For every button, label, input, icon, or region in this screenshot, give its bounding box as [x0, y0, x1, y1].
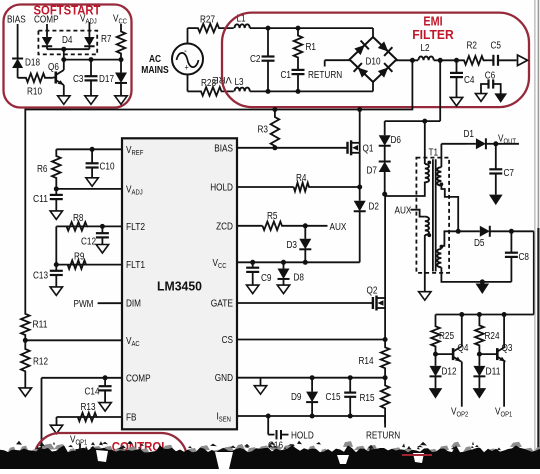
diode D1	[466, 143, 476, 145]
ground aux	[419, 292, 431, 301]
wire VCC pin	[237, 261, 360, 263]
node GND at D9	[310, 375, 315, 380]
svg-text:D6: D6	[391, 135, 402, 146]
svg-text:C12: C12	[81, 237, 96, 248]
diode D12	[435, 354, 437, 366]
wire D4 link	[47, 48, 89, 50]
wire ZCD pin	[237, 225, 263, 227]
bridge diode bottom-left	[354, 63, 370, 79]
svg-text:COMP: COMP	[126, 373, 151, 384]
node Q1 drain bus	[357, 107, 362, 112]
wire BIAS down	[17, 24, 19, 57]
wire ISEN pin	[237, 415, 385, 417]
wire D4 to rail	[63, 49, 65, 66]
node FLT2 at C12	[100, 224, 105, 229]
capacitor C1	[297, 62, 299, 70]
svg-text:R5: R5	[267, 211, 278, 222]
wire to T1 primary top	[424, 121, 426, 164]
node R24 bottom	[477, 352, 482, 357]
svg-text:L3: L3	[235, 77, 244, 88]
capacitor C10	[91, 149, 93, 163]
page edge line outer	[537, 0, 539, 228]
node VCC at C9	[250, 260, 255, 265]
node C2 bottom	[266, 89, 271, 94]
node CS junction	[383, 337, 388, 342]
svg-text:LM3450: LM3450	[157, 279, 202, 294]
node ISEN at D9	[310, 414, 315, 419]
svg-text:R14: R14	[359, 356, 374, 367]
node ZCD at D3	[303, 223, 308, 228]
wire VAC pin	[25, 339, 122, 341]
node D4 junction	[61, 47, 66, 52]
ground C11	[50, 211, 62, 220]
wire Q2 drain	[384, 194, 386, 298]
resistor R7	[117, 24, 126, 60]
diode D2	[359, 187, 361, 201]
ground D17	[115, 96, 127, 105]
node ISEN at C15	[348, 414, 353, 419]
diode D4 left half	[46, 34, 48, 37]
wire GATE pin	[237, 302, 373, 304]
svg-text:PWM: PWM	[74, 299, 94, 310]
wire Q6 emitter down	[63, 85, 65, 96]
svg-text:C13: C13	[33, 271, 48, 282]
svg-text:FB: FB	[126, 413, 137, 424]
inductor L1	[235, 24, 250, 28]
resistor R25	[431, 315, 440, 355]
node VREF at C10	[90, 147, 95, 152]
svg-text:BIAS: BIAS	[7, 15, 26, 26]
ground C6 left	[475, 94, 486, 102]
node rail at Q3	[502, 312, 507, 317]
svg-text:MAINS: MAINS	[141, 65, 169, 76]
node C8 bottom	[480, 279, 485, 284]
wire Q2 source	[384, 308, 386, 340]
svg-text:C11: C11	[33, 194, 48, 205]
resistor R24	[475, 315, 484, 355]
node rail at D17	[119, 57, 124, 62]
wire ac top to bridge	[250, 27, 373, 29]
node C1 bottom	[296, 89, 301, 94]
svg-text:D5: D5	[474, 238, 485, 249]
diode D18	[17, 57, 19, 59]
node R3 bottom	[272, 145, 277, 150]
resistor R14	[381, 340, 390, 378]
bridge rectifier D10 outline	[350, 37, 397, 82]
svg-text:C15: C15	[326, 392, 341, 403]
wire ZCD to AUX	[305, 225, 327, 227]
wire HOLD pin	[237, 186, 294, 188]
ground GND pin	[260, 378, 262, 386]
wire D5 out to rail	[511, 230, 533, 232]
node VADJ at R6	[54, 186, 59, 191]
node D5 out at C8	[509, 229, 514, 234]
svg-text:Q1: Q1	[363, 144, 374, 155]
wire Q3 emitter down	[504, 361, 505, 363]
svg-text:R15: R15	[360, 393, 375, 404]
softstart region box	[4, 5, 132, 108]
t1 secondary bottom winding	[437, 249, 441, 267]
inductor L2	[418, 56, 433, 60]
svg-text:R9: R9	[74, 252, 85, 263]
svg-text:T1: T1	[429, 148, 439, 159]
capacitor C7	[495, 144, 497, 170]
transistor Q4	[452, 348, 455, 360]
svg-text:D7: D7	[367, 166, 378, 177]
wire aux in	[411, 210, 425, 217]
wire COMP down	[46, 24, 48, 34]
diode D9	[311, 378, 313, 392]
capacitor C14	[104, 378, 106, 386]
wire L2 to R2	[434, 59, 464, 61]
svg-text:R3: R3	[258, 125, 269, 136]
resistor R27	[196, 24, 234, 33]
emi filter region box	[222, 13, 529, 108]
svg-text:D2: D2	[369, 202, 380, 213]
wire flt2-flt1 link	[55, 226, 57, 264]
wire center tap link	[441, 231, 458, 249]
ground sec bottom (solid)	[476, 284, 490, 295]
t1 core	[432, 159, 434, 271]
wire secondary top out	[440, 144, 442, 167]
node ISEN at C16	[266, 414, 271, 419]
svg-text:AC: AC	[149, 54, 161, 65]
resistor R6	[52, 149, 61, 189]
wire VADJ pin	[56, 188, 122, 190]
capacitor C2	[267, 28, 269, 56]
svg-text:C1: C1	[281, 70, 292, 81]
torn edge white notch 4	[337, 455, 349, 464]
svg-text:C10: C10	[100, 162, 115, 173]
node COMP at C14	[103, 375, 108, 380]
wire VADJ down	[88, 22, 90, 34]
diode D17	[120, 60, 122, 73]
svg-text:FLT1: FLT1	[126, 260, 145, 271]
ground C7 (solid)	[489, 195, 503, 206]
wire Q4 emitter down	[460, 361, 463, 363]
wire Q1 drain	[359, 110, 361, 143]
svg-text:ZCD: ZCD	[216, 221, 233, 232]
wire FLT1 pin	[86, 264, 122, 266]
node softstart rail left	[61, 57, 66, 62]
node Q1 source junction	[357, 185, 362, 190]
resistor R12	[21, 340, 30, 388]
svg-text:FILTER: FILTER	[412, 28, 454, 42]
svg-text:Q3: Q3	[502, 343, 513, 354]
wire VREF pin	[56, 148, 122, 150]
torn edge black layer	[0, 445, 540, 469]
wire sec top bottom jog	[441, 186, 458, 232]
svg-text:Q6: Q6	[48, 62, 59, 73]
resistor R28	[200, 87, 234, 96]
wire softstart rail	[64, 59, 121, 61]
capacitor C6	[487, 79, 489, 88]
arrow FB net down	[50, 425, 62, 434]
svg-text:HOLD: HOLD	[291, 431, 314, 442]
svg-text:EMI: EMI	[423, 14, 442, 29]
diode D3	[304, 226, 306, 239]
ground Q6	[58, 96, 70, 105]
transformer T1 dashed box	[416, 158, 449, 273]
resistor R10	[18, 74, 53, 83]
wire VOUT stub	[496, 143, 519, 145]
transistor Q6	[54, 72, 57, 84]
capacitor C3	[90, 60, 92, 77]
svg-text:R12: R12	[33, 357, 48, 368]
svg-text:D1: D1	[464, 129, 475, 140]
node rail at Q4	[459, 312, 464, 317]
svg-text:C5: C5	[491, 41, 502, 52]
svg-text:R8: R8	[73, 213, 84, 224]
svg-text:R24: R24	[485, 331, 500, 342]
resistor R15	[381, 378, 390, 424]
svg-text:D4: D4	[62, 35, 73, 46]
wire sec bottom out	[441, 267, 511, 282]
ground C10	[86, 178, 98, 187]
torn edge red fragment	[402, 454, 432, 456]
wire ac bottom	[187, 75, 189, 92]
ground D12 (solid)	[429, 388, 443, 399]
svg-text:R1: R1	[306, 42, 317, 53]
ac source symbol	[172, 44, 203, 75]
ground C12	[96, 245, 108, 254]
capacitor C4	[456, 60, 458, 73]
node R24 top	[477, 312, 482, 317]
bridge diode bottom-right	[377, 63, 393, 79]
svg-text:GATE: GATE	[211, 299, 234, 310]
diode D6	[384, 121, 386, 135]
wire RETURN drop	[384, 416, 386, 428]
control region box	[34, 433, 187, 474]
svg-text:C2: C2	[250, 54, 261, 65]
svg-text:D18: D18	[25, 58, 40, 69]
svg-text:C14: C14	[85, 387, 100, 398]
bridge diode top-left	[353, 41, 369, 57]
wire COMP pin	[42, 377, 123, 379]
resistor R1	[294, 28, 303, 62]
capacitor C8	[510, 231, 512, 252]
svg-text:L2: L2	[421, 43, 430, 54]
ground C13	[50, 287, 62, 296]
node primary feed	[422, 119, 427, 124]
svg-text:Q2: Q2	[367, 286, 378, 297]
resistor R13	[57, 413, 97, 422]
svg-text:COMP: COMP	[34, 15, 59, 26]
svg-text:FLT2: FLT2	[126, 222, 145, 233]
node FLT1 at C13	[54, 262, 59, 267]
svg-text:DIM: DIM	[126, 299, 141, 310]
svg-text:BIAS: BIAS	[214, 143, 233, 154]
svg-text:C4: C4	[464, 75, 475, 86]
svg-text:-: -	[184, 46, 187, 57]
diode D4 right half	[88, 34, 90, 37]
svg-text:R6: R6	[37, 164, 48, 175]
svg-text:HOLD: HOLD	[210, 183, 233, 194]
svg-text:R7: R7	[101, 34, 112, 45]
t1 secondary top phase dot	[440, 182, 444, 186]
wire FLT2 pin	[87, 225, 122, 227]
ground C9	[247, 285, 259, 294]
terminal VOP1	[79, 444, 81, 450]
node VCC at D3	[303, 260, 308, 265]
svg-text:R2: R2	[467, 41, 478, 52]
ic LM3450 body	[122, 138, 237, 429]
ground C14	[99, 403, 111, 412]
svg-text:D17: D17	[99, 74, 114, 85]
resistor R8	[56, 222, 87, 231]
svg-text:R10: R10	[27, 87, 42, 98]
node C2 top	[266, 26, 271, 31]
node rail at C3	[89, 57, 94, 62]
t1 secondary bottom phase dot	[440, 245, 444, 249]
t1 primary phase dot	[427, 161, 431, 165]
node VAC divider	[23, 338, 28, 343]
capacitor C12	[101, 226, 103, 233]
node VCC at D8	[281, 260, 286, 265]
wire Q1 source	[359, 153, 361, 187]
capacitor C11	[55, 189, 57, 195]
t1 secondary top winding	[437, 167, 441, 185]
wire left rail down	[24, 109, 26, 314]
wire ac top	[187, 28, 189, 43]
arrow output right	[518, 55, 528, 66]
diode D11	[478, 354, 480, 366]
resistor R9	[56, 260, 86, 269]
node R1 top	[296, 26, 301, 31]
svg-text:R13: R13	[81, 402, 96, 413]
svg-text:C8: C8	[519, 252, 530, 263]
svg-text:D9: D9	[291, 392, 302, 403]
ground R12	[19, 388, 31, 397]
wire ac bottom to bridge	[250, 90, 373, 92]
node VOUT	[493, 141, 498, 146]
transistor Q1 (mosfet)	[346, 142, 348, 154]
page edge line inner	[534, 0, 536, 469]
transistor Q3	[496, 348, 499, 360]
svg-text:GND: GND	[215, 373, 233, 384]
svg-text:C9: C9	[261, 273, 272, 284]
svg-text:R27: R27	[200, 15, 215, 26]
inductor L3	[235, 88, 250, 92]
resistor R2	[464, 56, 488, 65]
wire drop after L2	[439, 60, 441, 121]
wire right rail	[533, 231, 535, 314]
torn edge speckles	[90, 446, 95, 449]
resistor R4	[294, 183, 360, 192]
wire return leader	[325, 59, 350, 61]
svg-text:D3: D3	[287, 240, 298, 251]
node center tap	[456, 229, 461, 234]
wire R13 left down	[56, 417, 58, 425]
node R25 bottom	[433, 352, 438, 357]
wire Q3 collector	[504, 346, 505, 348]
torn edge white notch 3	[413, 453, 424, 463]
capacitor C16 with HOLD	[267, 416, 269, 435]
bridge diode top-right	[377, 40, 393, 56]
t1 aux phase dot	[427, 233, 431, 237]
ground D11 (solid)	[473, 388, 487, 399]
svg-text:D10: D10	[366, 57, 381, 68]
svg-text:CS: CS	[222, 335, 234, 346]
wire GND pin	[237, 377, 385, 379]
node after L2	[438, 58, 443, 63]
wire secondary to D1	[441, 143, 466, 145]
ground C3	[85, 96, 97, 105]
svg-text:AUX: AUX	[330, 222, 347, 233]
diode D8	[283, 262, 285, 268]
diode D7	[384, 160, 386, 162]
node GND at C15	[348, 375, 353, 380]
transistor Q2 (mosfet)	[372, 297, 374, 309]
svg-text:R4: R4	[296, 173, 307, 184]
node R3 top	[272, 107, 277, 112]
svg-text:RETURN: RETURN	[308, 70, 342, 81]
wire D18 to R10	[17, 70, 19, 78]
wire primary bottom	[385, 182, 425, 196]
t1 primary winding	[425, 164, 429, 182]
diode D5	[458, 230, 480, 232]
svg-text:D8: D8	[294, 273, 305, 284]
svg-text:RETURN: RETURN	[366, 431, 400, 442]
svg-text:AUX: AUX	[395, 206, 412, 217]
torn edge white notch 1	[96, 450, 108, 462]
node D7 bottom junction	[382, 192, 387, 197]
wire main rectified bus	[25, 109, 413, 111]
wire bridge to L2	[396, 59, 418, 61]
wire DIM pin	[98, 302, 122, 304]
resistor R5	[263, 222, 306, 231]
resistor R11	[21, 313, 30, 340]
ground C4	[450, 97, 462, 106]
svg-text:D11: D11	[486, 367, 501, 378]
svg-text:R25: R25	[439, 331, 454, 342]
node GND at R14	[383, 375, 388, 380]
capacitor C13	[55, 265, 57, 271]
capacitor C9	[252, 262, 254, 267]
ground D8	[277, 285, 289, 294]
wire drop before L2 to bus	[411, 60, 413, 109]
svg-text:R11: R11	[33, 320, 48, 331]
node before L2	[410, 58, 415, 63]
svg-text:C3: C3	[73, 74, 84, 85]
capacitor C5	[487, 59, 493, 61]
wire FB pin	[97, 416, 122, 418]
svg-text:+: +	[184, 63, 188, 73]
torn edge white notch 2	[215, 452, 233, 469]
wire aux winding bottom	[424, 235, 426, 292]
svg-text:Q4: Q4	[458, 343, 469, 354]
wire CS pin	[237, 339, 385, 341]
torn edge gray shadow	[8, 447, 16, 452]
wire BIAS pin to gate	[237, 147, 348, 149]
capacitor C15	[349, 378, 351, 393]
node at C4	[454, 58, 459, 63]
svg-text:D12: D12	[442, 367, 457, 378]
resistor R3	[271, 110, 280, 148]
wire Q4 collector	[460, 346, 463, 348]
svg-text:C7: C7	[504, 168, 515, 179]
ground C6 right (chassis)	[494, 93, 507, 103]
dashed box around D4	[38, 31, 97, 55]
t1 aux winding	[425, 217, 429, 235]
